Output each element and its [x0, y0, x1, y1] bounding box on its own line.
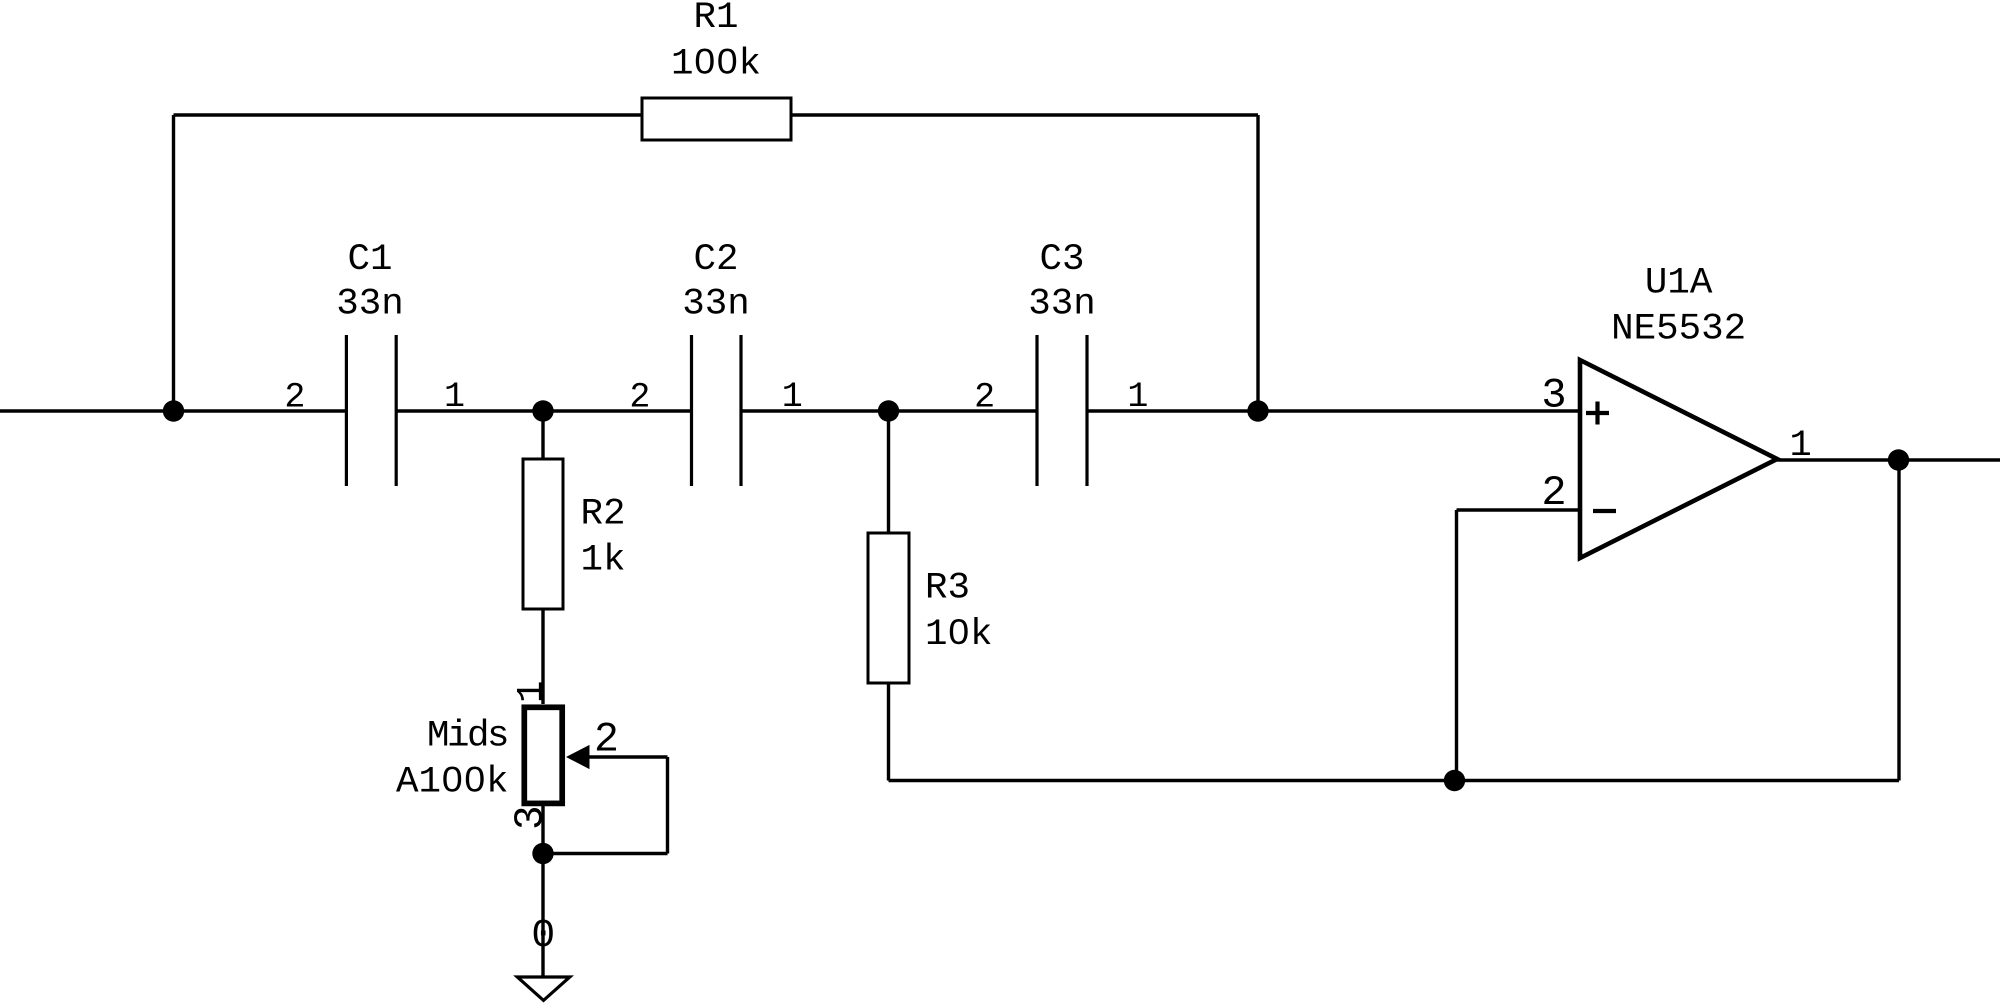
wire R3 down [887, 683, 890, 781]
wire feedback rail [889, 779, 1900, 782]
svg-text:R3: R3 [925, 568, 970, 610]
wire wiper drop [666, 757, 669, 854]
junction node A [163, 400, 184, 421]
zero dot masks A100k [448, 774, 456, 782]
wire node A up [172, 115, 175, 411]
junction node B [532, 400, 553, 421]
svg-text:33n: 33n [336, 284, 404, 326]
svg-text:C3: C3 [1039, 239, 1084, 281]
potentiometer wiper arrow [566, 745, 590, 769]
svg-text:1: 1 [782, 377, 803, 417]
svg-text:1k: 1k [581, 539, 626, 581]
svg-text:1: 1 [512, 680, 554, 703]
svg-text:100k: 100k [671, 44, 761, 86]
op-amp U1A [1580, 360, 1777, 558]
wire feedback up to pin 2 [1455, 510, 1458, 781]
svg-text:0: 0 [531, 914, 555, 959]
svg-text:2: 2 [974, 377, 995, 417]
zero dot masks 100k [701, 56, 709, 64]
wire C2 to C3 [741, 409, 1037, 412]
wire wiper to right [589, 755, 668, 758]
svg-text:R1: R1 [693, 0, 738, 39]
svg-text:2: 2 [629, 377, 650, 417]
wire op-amp output [1777, 458, 2000, 461]
wire potentiometer pin 3 to ground [541, 806, 544, 977]
wire C3 to op-amp pin 3 [1087, 409, 1578, 412]
svg-text:Mids: Mids [427, 716, 507, 758]
capacitor C3 [1037, 335, 1087, 486]
svg-text:C1: C1 [347, 239, 392, 281]
ground symbol [517, 977, 570, 1000]
wire right drop to main line [1256, 115, 1259, 411]
svg-text:1: 1 [444, 377, 465, 417]
junction node D [1247, 400, 1268, 421]
svg-text:A100k: A100k [396, 762, 509, 804]
junction feedback [1444, 770, 1465, 791]
wire R2 to potentiometer pin 1 [541, 609, 544, 704]
wire to op-amp pin 2 [1457, 508, 1579, 511]
svg-text:2: 2 [1541, 469, 1566, 517]
wire R1 to right drop [791, 113, 1258, 116]
wire node C to R3 [887, 411, 890, 533]
resistor R1 [642, 98, 791, 140]
svg-text:R2: R2 [581, 494, 626, 536]
op-amp plus marker [1586, 402, 1609, 425]
junction pot bottom [532, 843, 553, 864]
wire node B to R2 [541, 411, 544, 459]
svg-text:1: 1 [1789, 425, 1811, 467]
junction output [1888, 449, 1909, 470]
svg-text:U1A: U1A [1645, 262, 1713, 304]
svg-text:10k: 10k [925, 614, 993, 656]
wire output drop to feedback [1897, 460, 1900, 781]
zero dot mask 10k [955, 627, 963, 635]
resistor R3 [868, 533, 909, 683]
potentiometer RV1 body [524, 707, 562, 803]
svg-text:33n: 33n [1028, 284, 1096, 326]
svg-text:C2: C2 [693, 239, 738, 281]
svg-text:33n: 33n [682, 284, 750, 326]
svg-text:3: 3 [1541, 372, 1566, 420]
wire top rail to R1 [174, 113, 643, 116]
svg-text:2: 2 [284, 377, 305, 417]
svg-text:1: 1 [1127, 377, 1148, 417]
svg-text:NE5532: NE5532 [1611, 309, 1746, 351]
wire wiper return to pin 3 node [543, 852, 668, 855]
op-amp minus marker [1593, 509, 1616, 513]
wire C1 to C2 [396, 409, 692, 412]
junction node C [878, 400, 899, 421]
resistor R2 [523, 459, 563, 609]
capacitor C1 [346, 335, 396, 486]
wire input left to C1 [0, 409, 346, 412]
svg-text:2: 2 [594, 717, 619, 764]
capacitor C2 [692, 335, 742, 486]
svg-text:3: 3 [509, 805, 555, 830]
